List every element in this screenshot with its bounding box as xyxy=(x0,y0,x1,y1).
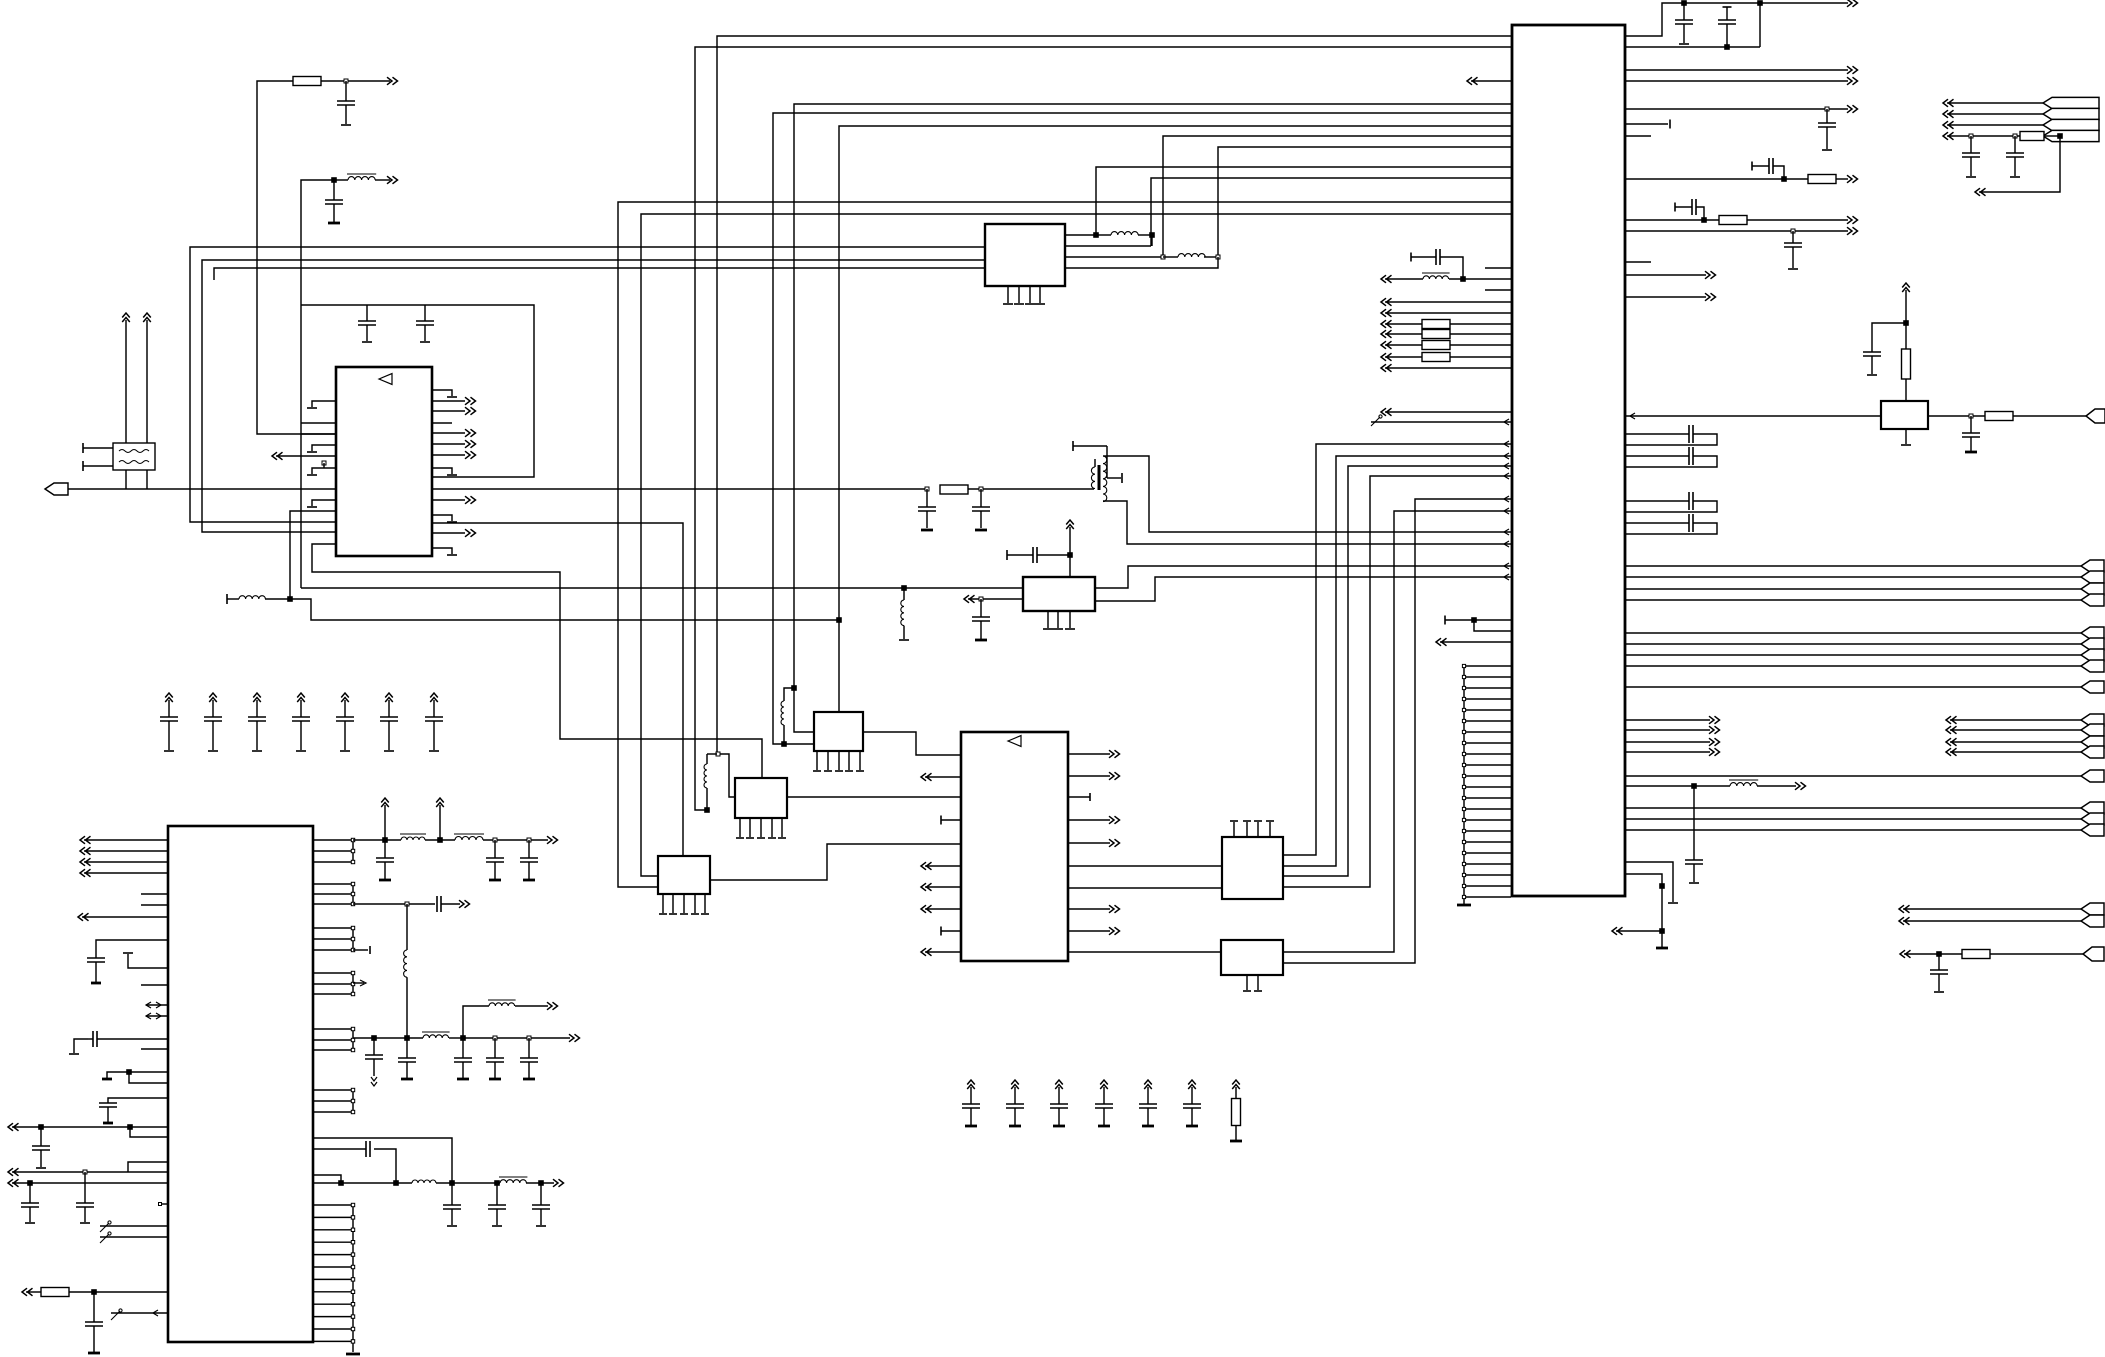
U8 out arrow 275 xyxy=(1625,274,1706,276)
bus wire y136 xyxy=(1163,136,1511,257)
capacitor C5 xyxy=(926,489,928,507)
U8 gnd stub 874 xyxy=(1625,874,1662,947)
wire bus 268 xyxy=(214,268,985,280)
U8 stub bar 124 xyxy=(1625,123,1668,125)
wire node R2 in xyxy=(925,487,929,491)
wire U6 to U8 p3 xyxy=(1283,466,1511,876)
capacitor C16 bypass xyxy=(430,693,438,702)
U8 input 368 xyxy=(1381,364,1392,372)
power arrow net VCC1 xyxy=(387,77,398,85)
inductor L4 xyxy=(1163,256,1178,258)
wire U6 to U8 p2 xyxy=(1283,456,1511,866)
power arrow T1-a xyxy=(125,320,127,443)
U8 out 416 to U10 xyxy=(1630,413,1635,419)
bus wire y36 xyxy=(717,36,1511,754)
U1 right gnd stub 1 xyxy=(432,468,452,474)
U8 left stub 290 xyxy=(1485,289,1511,291)
U2 input net 1172 xyxy=(8,1168,19,1176)
ic U3 xyxy=(985,224,1065,286)
ground xyxy=(328,222,340,225)
input net 954 xyxy=(1900,950,1911,958)
T1 left terminal 2 xyxy=(83,465,113,467)
U8 input 302 xyxy=(1381,298,1392,306)
wire to caps y840 xyxy=(483,839,548,841)
U2 switch pin 1237 xyxy=(100,1234,109,1243)
bus wire y214 xyxy=(641,214,1511,876)
wire U9B out to U4 xyxy=(787,796,961,798)
bus wire y202 xyxy=(618,202,1511,887)
resistor R15 xyxy=(1719,216,1747,225)
inductor L10 vertical xyxy=(406,904,408,950)
connector J1 group xyxy=(2043,97,2099,108)
bus wire y104 xyxy=(794,104,1511,732)
capacitor C15 bypass xyxy=(385,693,393,702)
capacitor C14 bypass xyxy=(341,693,349,702)
U2 stub 985 xyxy=(141,984,168,986)
capacitor C73 bypass xyxy=(1100,1080,1108,1089)
U9C bottom pins xyxy=(662,894,664,913)
wire y1038 caps xyxy=(463,1037,570,1039)
U2 stub 1175 xyxy=(313,1175,341,1183)
U4 left input 777 xyxy=(921,773,932,781)
U1 left pin gnd stub 3 xyxy=(312,468,336,474)
capacitor C11 bypass xyxy=(209,693,217,702)
capacitor C21 xyxy=(74,1039,88,1053)
resistor R1 xyxy=(293,77,321,86)
wire U4 to U6 a xyxy=(1068,865,1222,867)
wire bus vertical x190 xyxy=(190,247,985,522)
resistor R19 xyxy=(1962,950,1990,959)
wire bus vertical x202 xyxy=(202,260,985,532)
capacitor C2 xyxy=(333,180,335,200)
capacitor C20 xyxy=(96,940,168,958)
connector J8 group xyxy=(1625,807,2081,809)
power arrow filter F1a xyxy=(381,798,389,807)
U3 pin D wire xyxy=(1065,257,1218,268)
capacitor C12 bypass xyxy=(253,693,261,702)
U8 inductor out 786 xyxy=(1625,785,1730,787)
U2 left input arrows xyxy=(80,836,91,844)
U1 left pin 423 xyxy=(301,422,336,424)
wire U9A out to U4 xyxy=(863,732,961,755)
capacitor C4 xyxy=(424,305,426,321)
U8 stub 262 xyxy=(1625,261,1651,263)
U1 right gnd stub top xyxy=(432,390,452,396)
connector J3 group xyxy=(1625,565,2081,567)
resistor R17 vertical xyxy=(1902,349,1911,379)
U2 bidir pins xyxy=(146,1004,168,1006)
wire L1 node xyxy=(301,180,334,305)
T2 primary top stub xyxy=(1094,459,1096,467)
resistor R12 xyxy=(1422,341,1450,350)
U6 top pins xyxy=(1233,822,1235,837)
capacitor C26 xyxy=(93,1292,95,1322)
capacitor C30 xyxy=(436,896,438,912)
node input RX xyxy=(272,452,283,460)
filter wire y1183 xyxy=(313,1182,412,1184)
wire U6 to U8 p4 xyxy=(1283,476,1511,887)
U2 right pin ladder xyxy=(313,839,353,841)
U4 right out arrows xyxy=(1068,753,1110,755)
J1 line4 rc xyxy=(1943,132,1954,140)
U2 input net 1292 xyxy=(22,1288,33,1296)
U8 tie pin 620 xyxy=(1444,616,1446,625)
capacitor C32 xyxy=(406,1038,408,1058)
filter wire y1038 xyxy=(353,1037,423,1039)
capacitor C41 xyxy=(1683,3,1685,20)
inductor L9 xyxy=(425,839,455,841)
ic U9A xyxy=(814,712,863,751)
U8 input 412 xyxy=(1381,408,1392,416)
capacitor C28 xyxy=(494,840,496,858)
bus wire y178 xyxy=(1151,178,1511,246)
capacitor C47 xyxy=(1970,136,1972,153)
U2 pin 1138 wire xyxy=(313,1138,452,1183)
U8 switch pin 422 xyxy=(1371,417,1380,426)
capacitor C75 bypass xyxy=(1188,1080,1196,1089)
capacitor C8 xyxy=(980,599,982,617)
inductor L6 xyxy=(784,688,794,701)
wire U5 out2 xyxy=(1095,577,1511,601)
U8 out 220 rc xyxy=(1625,219,1719,221)
U9A bottom pins xyxy=(816,751,818,770)
wire into U5 pin1 xyxy=(301,587,1023,589)
power arrow filter F1b xyxy=(436,798,444,807)
wire L3 to bus178 xyxy=(1151,235,1153,246)
U4 right stub 797 xyxy=(1068,796,1090,798)
connector J4 group xyxy=(1625,632,2081,634)
U8 out 81 xyxy=(1625,80,1848,82)
wire R1 output xyxy=(321,80,390,82)
U8 inductor input 279 xyxy=(1381,275,1392,283)
inductor L11 xyxy=(423,1035,449,1038)
U2 stub 1049 xyxy=(141,1048,168,1050)
U8 left arrowheads xyxy=(1504,419,1509,425)
wire T1 bottom to net xyxy=(125,470,127,489)
wire P1 to U1 xyxy=(68,488,336,490)
U1 left pin gnd stub 4 xyxy=(312,500,336,506)
U2 input net 1127 xyxy=(8,1123,19,1131)
node U5 pin2 xyxy=(964,595,975,603)
capacitor C1 xyxy=(345,81,347,101)
U2 stub bar 950 xyxy=(353,949,368,951)
resistor R14 xyxy=(1808,175,1836,184)
U4 left input 952 xyxy=(921,948,932,956)
wire rail47 xyxy=(1625,46,1760,48)
U1 right out arrow 500 xyxy=(432,499,465,501)
capacitor C40 xyxy=(1410,253,1412,262)
ic U5 xyxy=(1023,577,1095,611)
wire U7 to U8 p2 xyxy=(1283,499,1511,963)
U8 resistor inputs xyxy=(1381,320,1392,328)
power arrow T1-b xyxy=(146,320,148,443)
U2 pin 968 stub xyxy=(128,954,168,968)
U8 out 109 xyxy=(1625,108,1848,110)
U1 right out arrow 533 xyxy=(432,532,465,534)
wire U1 pin523 to IC-C top xyxy=(432,523,683,856)
U2 switch pin 1313 xyxy=(111,1311,120,1320)
capacitor C44 xyxy=(1751,162,1753,171)
capacitor C46 xyxy=(1792,231,1794,243)
U4 left input 887 xyxy=(921,883,932,891)
wire R2 out xyxy=(968,488,1094,490)
U4 left input 866 xyxy=(921,862,932,870)
U9A pin2 wire xyxy=(781,741,787,747)
connector J9 group xyxy=(1899,905,1910,913)
U8 out 179 rc xyxy=(1625,178,1808,180)
inductor L3 xyxy=(1096,234,1111,236)
U3 pin B wire xyxy=(1065,245,1151,247)
wire U9C out to U4 xyxy=(710,844,961,880)
wire from R1 to node xyxy=(257,81,336,434)
U1 left pin gnd stub 2 xyxy=(312,445,336,451)
inductor L7 xyxy=(706,754,708,764)
power arrow rail3 xyxy=(1847,0,1858,7)
U8 left stub 268 xyxy=(1485,267,1511,269)
U8 stub 136 xyxy=(1625,135,1651,137)
loop wire around U1 xyxy=(301,433,336,435)
U8 input 313 xyxy=(1381,309,1392,317)
U4 left pin bar 820 xyxy=(941,819,961,821)
wire L2 node xyxy=(265,598,290,600)
inductor L14 xyxy=(412,1180,436,1183)
inductor L1 xyxy=(334,179,348,181)
capacitor C63 xyxy=(1938,954,1940,970)
inductor L5 xyxy=(901,600,904,626)
capacitor C3 xyxy=(366,305,368,321)
U2 left input arrow 917 xyxy=(78,913,89,921)
capacitor C23 xyxy=(40,1127,42,1146)
inductor L8 xyxy=(401,837,425,840)
coupling loop cap C50 xyxy=(1625,433,1689,435)
inductor L2 xyxy=(226,594,228,604)
U1 right gnd stub 3 xyxy=(432,548,452,554)
bus wire y47 xyxy=(695,47,1511,810)
U8 header block xyxy=(1463,666,1465,904)
capacitor C13 bypass xyxy=(297,693,305,702)
ic U8 xyxy=(1512,25,1625,896)
transformer T2 xyxy=(1091,467,1095,489)
coupling loop cap C53 xyxy=(1625,522,1689,524)
U10 bottom pin xyxy=(1905,429,1907,444)
capacitor C42 xyxy=(1723,6,1732,8)
capacitor C34 xyxy=(494,1038,496,1058)
U2 bottom right pin ladder xyxy=(352,1205,354,1352)
U4 left pin tick 931 xyxy=(941,930,961,932)
wire U7 to U8 p1 xyxy=(1283,511,1511,952)
ic U2 xyxy=(168,826,313,1342)
T2 secondary top tie xyxy=(1072,441,1074,451)
U8 gnd stub 862 xyxy=(1625,862,1673,902)
branch inductor L12 xyxy=(463,1006,489,1038)
power arrow net VCC2 xyxy=(375,179,390,181)
resistor R16 xyxy=(2020,132,2044,141)
resistor R18 xyxy=(1985,412,2013,421)
U8 top cap rail xyxy=(1625,3,1848,36)
coupling cap net 904 xyxy=(353,903,435,905)
wire U1 pin489 to R2 xyxy=(432,488,927,490)
U1 right gnd stub 2 xyxy=(432,515,452,521)
U5 bottom pins xyxy=(1047,611,1049,628)
U10 out net xyxy=(1928,415,2086,417)
U8 out 70 xyxy=(1625,69,1848,71)
op-amp U1 xyxy=(336,367,432,556)
U2 pin 1162 xyxy=(128,1162,168,1172)
capacitor C61 xyxy=(1970,416,1972,433)
capacitor C70 bypass xyxy=(967,1080,975,1089)
connector J5 xyxy=(1625,686,2081,688)
coupling loop cap C52 xyxy=(1625,500,1689,502)
filter wire y840 xyxy=(353,839,401,841)
bus wire y126 xyxy=(839,126,1511,712)
U1 left pin gnd stub 1 xyxy=(312,401,336,407)
U8 input arrow 642 xyxy=(1436,638,1447,646)
U8 out arrows 720-752 xyxy=(1625,719,1710,721)
wire U4 to U6 b xyxy=(1068,887,1222,889)
power arrow U10 vcc xyxy=(1902,283,1910,292)
resistor R3 xyxy=(41,1288,69,1297)
U3 pin C wire xyxy=(1065,256,1163,258)
capacitor C6 xyxy=(980,489,982,507)
wire T2 out lower xyxy=(1103,501,1511,544)
capacitor C10 bypass xyxy=(165,693,173,702)
capacitor C45 xyxy=(1674,203,1676,212)
U8 left stub arrow 81 xyxy=(1467,77,1478,85)
U2 pin network 1071 xyxy=(129,1071,168,1073)
U2 switch pin 1226 xyxy=(100,1223,109,1232)
bus wire y167 xyxy=(1096,167,1511,235)
capacitor C74 bypass xyxy=(1144,1080,1152,1089)
U2 arrow pin 983 xyxy=(353,982,364,984)
wire T2 out upper xyxy=(1103,455,1107,457)
wire U4 to U7 xyxy=(1068,951,1221,953)
capacitor C60 xyxy=(1872,323,1906,352)
connector P1 xyxy=(45,483,68,495)
ic U7 xyxy=(1221,940,1283,975)
capacitor C43 xyxy=(1826,109,1828,123)
U8 out arrow 297 xyxy=(1625,296,1706,298)
inductor L13 xyxy=(1730,783,1757,786)
resistor R11 xyxy=(1422,330,1450,339)
connector J7 xyxy=(1625,775,2081,777)
resistor R13 xyxy=(1422,353,1450,362)
capacitor C62 xyxy=(1693,786,1695,860)
capacitor C24 xyxy=(29,1183,31,1203)
U2 input net 1183 xyxy=(8,1179,19,1187)
capacitor C22 xyxy=(108,1098,168,1103)
U2 nc pin 1204 xyxy=(161,1203,168,1205)
bus wire y113 xyxy=(773,113,1511,744)
coupling loop cap C51 xyxy=(1625,455,1689,457)
ic U10 xyxy=(1881,401,1928,429)
capacitor C48 xyxy=(2014,136,2016,153)
capacitor C72 bypass xyxy=(1055,1080,1063,1089)
U9B pin1 wire xyxy=(717,754,736,797)
capacitor C71 bypass xyxy=(1011,1080,1019,1089)
capacitor C35 xyxy=(528,1038,530,1058)
T1 left terminal 1 xyxy=(83,447,113,449)
resistor R10 xyxy=(1422,320,1450,329)
capacitor C33 xyxy=(462,1038,464,1058)
wire L2 to x839 bus xyxy=(290,599,839,620)
resistor R20 vertical xyxy=(1232,1080,1240,1089)
connector J10 xyxy=(2083,947,2104,961)
U2 left stubs xyxy=(141,893,168,895)
connector J2 xyxy=(2086,409,2105,423)
capacitor C39 xyxy=(540,1183,542,1205)
connector J6 group xyxy=(1946,716,1957,724)
capacitor C7 xyxy=(1006,550,1008,560)
U3 pin A wire xyxy=(1065,234,1096,236)
capacitor C31 xyxy=(373,1038,375,1055)
ic U9B xyxy=(735,778,787,818)
U8 out 231 xyxy=(1625,230,1848,232)
wire node 511 xyxy=(290,511,336,599)
transformer T1 xyxy=(113,443,155,470)
bus wire y147 xyxy=(1218,147,1511,257)
capacitor C37 xyxy=(451,1183,453,1205)
inductor L15 xyxy=(500,1180,526,1183)
U9B bottom pins xyxy=(739,818,741,837)
U7 bottom pins xyxy=(1246,975,1248,990)
U2 pin 1137 xyxy=(130,1127,168,1137)
wire U6 to U8 p1 xyxy=(1283,444,1511,855)
capacitor C25 xyxy=(84,1172,86,1203)
resistor R2 xyxy=(940,485,968,494)
U4 left input 909 xyxy=(921,905,932,913)
U8 input 931 xyxy=(1612,927,1623,935)
wire U5 out1 xyxy=(1095,566,1511,588)
J1 input lines xyxy=(1943,99,1954,107)
wire J1 loop xyxy=(1979,136,2060,192)
op-amp U4 xyxy=(961,732,1068,961)
capacitor C29 xyxy=(528,840,530,858)
capacitor C36 series xyxy=(313,1148,366,1150)
ic U6 xyxy=(1222,837,1283,899)
power arrow U5 vcc xyxy=(1066,520,1074,529)
wire U1 bottom to IC-B top xyxy=(312,544,762,778)
ic U9C xyxy=(658,856,710,894)
wire R3 to U2 xyxy=(69,1291,168,1293)
U3 bottom pins xyxy=(1007,286,1009,303)
capacitor C27 xyxy=(384,840,386,858)
U1 right pin arrows xyxy=(432,400,465,402)
capacitor C38 xyxy=(496,1183,498,1205)
